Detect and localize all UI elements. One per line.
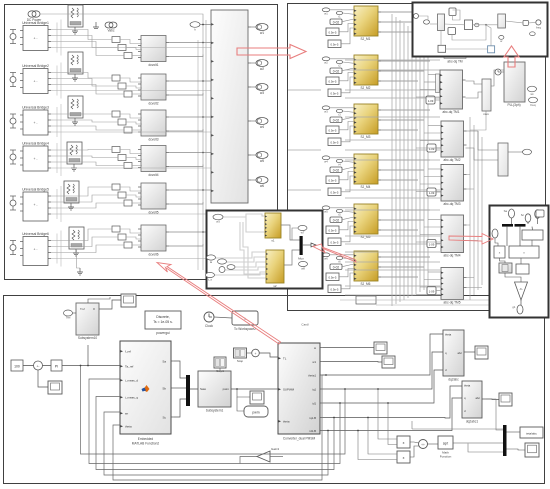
mid block [465,20,473,30]
wire: tr8 [446,48,488,50]
wire: feedback loop 1 (iq1) [81,366,346,455]
wire: rlc drop 5 [56,189,58,219]
svg-text:0.5e-5: 0.5e-5 [329,129,337,133]
gain trio 5 [112,184,132,206]
red arrow A5 long diagonal [157,263,281,345]
wire: blockA out to mux [281,225,300,240]
wire: delay to block 4 [436,243,441,245]
svg-text:+-: +- [36,364,39,368]
wire: tr7 [453,10,461,20]
svg-text:s1: s1 [271,239,275,243]
wire: vertical route 7 [415,32,417,294]
park transform block 2 [441,121,467,162]
wire: mux br to scope [507,449,526,450]
unit delay block 2 [427,144,436,152]
svg-text:0.5e-5: 0.5e-5 [329,31,337,35]
small oval b [475,23,479,27]
gain trio 3 [112,111,132,133]
wire: rm net 12 [520,300,522,305]
svg-text:dcvolt4: dcvolt4 [148,173,158,177]
wire: tr3 [445,23,465,26]
svg-text:++: ++ [421,443,425,447]
svg-text:MATLAB Function2: MATLAB Function2 [132,442,160,446]
measurement subsystem 5 [138,183,169,215]
svg-text:dq2abc: dq2abc [448,378,459,382]
svg-text:+ -: + - [33,248,37,252]
output port arrow middle [311,243,316,247]
gain trio 6 [112,226,132,248]
middle oval L5 [206,272,215,281]
reference oval 6b [336,256,342,263]
wire: sqrt to mux [453,442,503,444]
dq2abc1 block [462,381,482,424]
reference oval 5b [336,209,342,216]
svg-text:To Workspace2: To Workspace2 [234,327,256,331]
wire: gray2 to selector b [466,148,499,160]
delay block 6b [328,285,341,293]
clock small [495,69,501,75]
rm mux bar 1 [502,224,513,227]
unit delay block 5 [427,287,436,295]
subsystem1 [198,371,231,413]
svg-text:0.5e-5: 0.5e-5 [329,80,337,84]
wire: group 5 feeds [330,207,354,209]
sin oval [298,225,307,234]
constant block 1 0.02 [330,19,342,25]
wire: vertical route 9 [423,38,425,290]
wire: measurement 1 to trunk a [169,42,211,44]
wire: gain3 line [240,457,257,464]
wire: rm net 8 [531,240,533,246]
series RLC branch 5 [64,181,79,203]
tall multiplexer block [211,10,251,203]
series RLC branch 3 [68,96,83,118]
wire: const to sum [23,365,34,367]
svg-text:TL: TL [283,357,287,361]
wire: converter outs [323,347,374,349]
square block a [449,8,456,16]
series RLC branch 1 [68,5,83,27]
small oval c [499,36,504,44]
scope d1 [475,346,488,359]
wire: measurement 3 to trunk a [169,116,211,118]
svg-text:id1-B: id1-B [309,429,316,433]
wire: horizontal route 17 [345,285,440,287]
wire: step1 to subsystem1 top [219,368,221,371]
svg-text:Function: Function [440,455,452,459]
wire: delay to block 5 [436,290,441,292]
wire: sin oval link [292,228,298,240]
wire: sum2 to TL [259,353,278,357]
unit delay block 3 [427,188,436,196]
wire: subsystem10 out to scope1 [99,300,121,309]
svg-text:0.5e-5: 0.5e-5 [329,276,337,280]
park transform block 3 [441,165,467,207]
scope pwm [250,391,264,404]
wire: pwm branch scope [237,389,250,397]
wire: rm net 7 [495,238,498,246]
reference oval 3a [322,106,330,113]
sum junction [34,361,43,370]
svg-text:Universal Bridge2: Universal Bridge2 [22,64,49,68]
sum junction 3 [419,440,428,449]
wire: tr2 [430,23,438,25]
wire: rm net 1 [511,218,513,224]
svg-text:+ -: + - [33,80,37,84]
delay block 1b [328,40,341,48]
svg-text:Vabc: Vabc [107,29,114,33]
wire: right bundle vertical c [477,131,479,290]
dc source 5 [10,196,16,210]
mux bar bottom right [503,425,507,456]
park transform block 4 [441,215,467,258]
reference oval 1b [336,11,342,18]
wire: gray2 to selector [466,131,499,150]
reference oval 6a [322,253,330,260]
wire: routes into gray block 4 [428,219,441,221]
svg-text:dcvolt3: dcvolt3 [148,138,158,142]
reference oval 3b [336,109,342,116]
wire: rlc6 drop to ground [77,249,81,268]
svg-text:x: x [403,441,405,445]
svg-text:id1: id1 [312,401,316,405]
measurement subsystem 2 [138,74,169,106]
wire: tr1 [419,16,429,20]
to workspace2 [232,311,258,331]
svg-text:+ -: + - [33,157,37,161]
svg-text:0.5e-5: 0.5e-5 [331,191,339,195]
wire: horizontal route 8 [345,159,440,161]
wire: rm net 2 [527,222,529,224]
svg-text:0-02: 0-02 [333,219,340,223]
wire: block 1 outputs [378,11,430,13]
rm mux bar 2 [515,224,526,227]
wire: rm net 6 [531,227,534,230]
svg-text:theta: theta [283,420,290,424]
embedded matlab function block [120,341,174,446]
svg-text:w4: w4 [324,159,328,163]
unit delay block 1 [426,96,435,104]
wire: vertical route 5 [407,26,409,298]
rm sq [536,210,544,217]
reference oval 1a [322,8,330,15]
pwm detail block B (yellow) [266,250,284,288]
svg-text:Ts = 1e-05 s.: Ts = 1e-05 s. [153,320,173,324]
wire: blockB out to mux [284,250,300,265]
wire: group 2 feeds [330,58,354,60]
svg-text:SJ_M1: SJ_M1 [361,37,371,41]
svg-text:1-09: 1-09 [429,242,435,246]
wire: right columns [486,399,503,430]
wire: group 6 feeds [330,254,354,256]
ground 1 [72,27,78,34]
wire: feedback loop 5 (theta) [113,375,326,480]
wire: rm net 11 [505,273,521,282]
svg-text:abc-dq TM4: abc-dq TM4 [444,254,461,258]
wire: vertical route 4 [403,23,405,300]
wire: rlc drop 4 [56,143,58,173]
svg-text:theta1: theta1 [308,373,316,377]
park transform block 1 [440,70,466,114]
wire: trio 4 links [120,150,142,154]
svg-text:Subsystem1: Subsystem1 [206,409,224,413]
svg-text:w3: w3 [260,91,264,95]
svg-text:1-09: 1-09 [429,289,435,293]
small oval d [530,32,536,36]
constant block 6 0.02 [330,264,342,270]
universal bridge 1 [20,21,51,51]
ground cluster top [93,22,99,29]
wire: cross gap 4 [288,243,321,245]
wire: rm net 9 [500,258,506,263]
series RLC branch 6 [69,227,84,249]
svg-text:Sa: Sa [162,360,166,364]
svg-text:powergui: powergui [156,331,170,335]
svg-text:t_s: t_s [208,278,213,282]
svg-text:theta: theta [125,425,132,429]
rm rect c [509,246,539,258]
converter dual pmsm block [278,343,323,441]
wire: rlc drop 1 [56,23,58,53]
svg-text:Tref: Tref [80,307,85,311]
svg-text:SJ_M5: SJ_M5 [361,235,371,239]
svg-text:0-02: 0-02 [333,266,340,270]
wire: horizontal route 3 [345,89,440,91]
middle circle L4 [219,267,225,273]
wire: trio 3 links [120,114,142,118]
svg-text:100: 100 [14,365,20,369]
wire: horizontal route 11 [345,209,440,211]
svg-text:abc-dq TM5: abc-dq TM5 [444,301,461,305]
wire: bridge 3 output b [51,120,118,122]
gain rr block [523,20,528,25]
svg-text:abc-dq TM3: abc-dq TM3 [444,202,461,206]
wire: right bundle vertical d [481,137,483,285]
svg-text:Embedded: Embedded [138,437,154,441]
wire: cross gap 1 [288,89,321,91]
svg-text:Sa: Sa [504,209,508,213]
wire: sum to pi [43,365,52,367]
series RLC branch 4 [67,142,82,164]
wire: vertical route 2 [395,17,397,304]
wire: cross gap 3 [288,189,321,191]
svg-text:SJ_M2: SJ_M2 [361,86,371,90]
svg-text:x: x [403,456,405,460]
constant 100 [11,360,23,371]
svg-text:Ta_ref: Ta_ref [125,365,134,369]
wire: mux to output [303,244,311,246]
wire: bridge 1 output c [51,42,124,56]
dc source 2 [10,73,16,87]
svg-text:PLL(3ph): PLL(3ph) [507,103,520,107]
wire: horizontal route 1 [345,59,440,61]
mux small right frame 2 [356,296,376,304]
wire: bridge 5 output c [51,203,124,208]
wire: vertical route 1 [391,14,393,306]
measurement subsystem 4 [138,146,169,178]
svg-text:Universal Bridge6: Universal Bridge6 [22,232,49,236]
wire: clock to pll [501,71,504,73]
scope1 top [121,294,136,307]
svg-text:theta: theta [464,384,471,388]
wire: routes into gray block 5 [428,271,441,273]
wire: mux to subsystem1 [190,388,198,390]
wire: top dc rail [40,14,203,270]
svg-text:Universal Bridge5: Universal Bridge5 [22,188,49,192]
wire: oval h to tall block [200,24,211,26]
mux bar main [186,375,190,406]
reference oval 2b [336,60,342,67]
wire: block 4 outputs [378,159,430,161]
wire: right bundle vertical b [473,125,475,295]
svg-text:dq2abc1: dq2abc1 [466,420,478,424]
svg-text:SJ_M4: SJ_M4 [361,185,371,189]
wire: bridge 6 output b [51,237,118,247]
wire: routes into gray block 2 [428,125,441,127]
subsystem10 [76,303,99,340]
wire: rlc drop 3 [56,107,58,137]
constant block 4 0.02 [330,167,342,173]
svg-text:+ -: + - [33,203,37,207]
pll out oval 1 [528,86,537,96]
svg-text:R: R [93,307,95,311]
wire: delay to block 2 [436,147,441,149]
tetaabc display [520,427,543,438]
wire: tr4 [473,24,498,26]
svg-text:0.5e-5: 0.5e-5 [329,179,337,183]
delay block 4a [326,176,339,184]
dc source 3 [10,114,16,128]
scope w [48,381,62,394]
frame: top-right zoom region [413,3,548,57]
mux bar middle [300,236,303,255]
reference oval 4a [322,156,330,163]
gain trio 4 [112,147,132,169]
wire: junction up subsystem10 [87,345,89,366]
svg-text:abc-dq TM: abc-dq TM [447,60,463,64]
pll out oval 2 [529,97,538,107]
pwm generator block 5 (yellow) [354,204,381,239]
svg-text:w1: w1 [312,360,316,364]
wire: tr6 [528,21,535,24]
wire: selector out [508,151,523,153]
wire: horizontal route 10 [345,197,440,199]
svg-text:0-02: 0-02 [333,70,340,74]
wire: horizontal route 7 [345,149,440,151]
wire: bridge 4 output c [51,162,124,166]
wire: measurement 6 to trunk a [169,231,211,233]
svg-text:w6: w6 [260,184,264,188]
wire: dq2abc out scope [464,351,475,353]
wire: measurement 3 to trunk b [169,129,203,131]
delay block 2a [326,77,339,85]
wire: measurement 1 to trunk b [169,55,203,57]
sqrt math function [438,436,453,459]
reference oval 4b [336,159,342,166]
rm triangle gain [515,282,528,300]
red arrow A4 into right-mid frame [449,234,493,245]
svg-text:Sb: Sb [162,387,166,391]
svg-text:i_meas_d: i_meas_d [125,379,139,383]
frame: bottom main model region [4,296,545,484]
wire: bridge 3 output d [51,131,211,133]
rm gray rect [499,263,512,273]
rm oval out [512,305,523,314]
wire: bridge 3 output c [51,126,124,130]
wire: trio 1 links [120,40,142,44]
wire: stop chain [247,352,252,354]
dq2abc block [443,330,464,382]
gain trio 1 [112,37,132,59]
small oval a [424,20,430,24]
wire: mux down route [470,111,486,130]
svg-text:w7: w7 [301,231,305,235]
bottom block a [438,45,446,52]
middle oval L3 [227,265,235,270]
wire: vertical route 8 [419,35,421,292]
svg-text:Cardl: Cardl [301,323,309,327]
wire: vertical route 6 [411,29,413,296]
wire: cross gap 2 [288,149,321,151]
svg-text:w5: w5 [260,159,264,163]
display indicator 4 [251,118,268,130]
wire: sum down scope [38,370,48,387]
svg-text:dcvolt6: dcvolt6 [148,253,158,257]
svg-text:abc-dq TM2: abc-dq TM2 [444,158,461,162]
reference oval 5a [322,206,330,213]
svg-text:w5: w5 [324,209,328,213]
rm oval d [489,228,498,238]
wire: routes into gray block 3 [428,168,441,170]
wire: trio 2 links [120,78,142,82]
wire: rm net 10 [520,258,522,264]
wire: group 3 feeds [330,107,354,109]
wire: block 2 outputs [378,60,430,62]
wire: gray1 to mux a [466,81,483,84]
svg-text:dcvolt2: dcvolt2 [148,102,158,106]
wire: bridge 5 output a [51,187,112,196]
wire: trio 6 links [120,229,142,233]
square block b [448,28,456,35]
wire: bridge 6 output d [51,258,211,260]
mux tall small [438,14,445,31]
svg-text:Mux: Mux [298,257,304,261]
hidden park transform block sliver under F3 [444,56,466,64]
svg-text:iq1-B: iq1-B [309,416,316,420]
out circle [536,20,541,30]
rm rect d [516,264,529,274]
svg-text:PI: PI [55,365,58,369]
universal bridge 3 [20,106,51,136]
svg-text:Discrete,: Discrete, [156,315,169,319]
scope br [525,443,539,457]
svg-text:teta/abc: teta/abc [526,432,537,436]
constant block 2 0.02 [330,68,342,74]
svg-text:+: + [255,352,257,356]
ground row6 extra [77,268,83,275]
ground 3 [72,118,78,125]
svg-text:Tref: Tref [66,316,71,320]
middle oval L2 [218,259,227,264]
svg-text:sqrt: sqrt [443,442,448,446]
wire: products to sum3 [410,442,419,443]
svg-text:Clock: Clock [205,324,213,328]
svg-text:1-09: 1-09 [428,99,434,103]
wire: measurement 4 to trunk a [169,152,211,154]
product block 2 [397,451,410,463]
red arrow A3 diagonal small [313,244,356,262]
wire: group 4 feeds [330,157,354,159]
